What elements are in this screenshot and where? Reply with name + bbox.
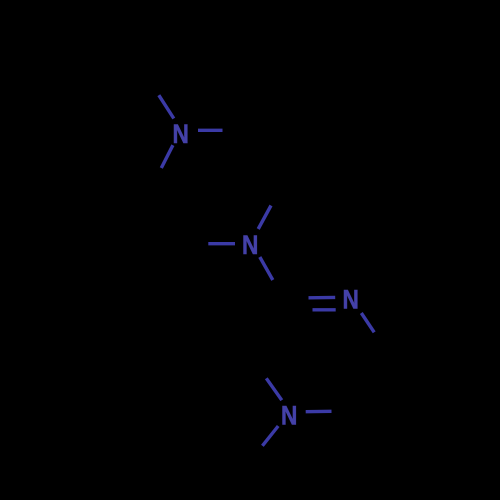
svg-text:N: N: [173, 119, 189, 149]
svg-text:N: N: [343, 285, 359, 315]
svg-text:N: N: [242, 230, 258, 260]
svg-text:N: N: [281, 401, 297, 431]
